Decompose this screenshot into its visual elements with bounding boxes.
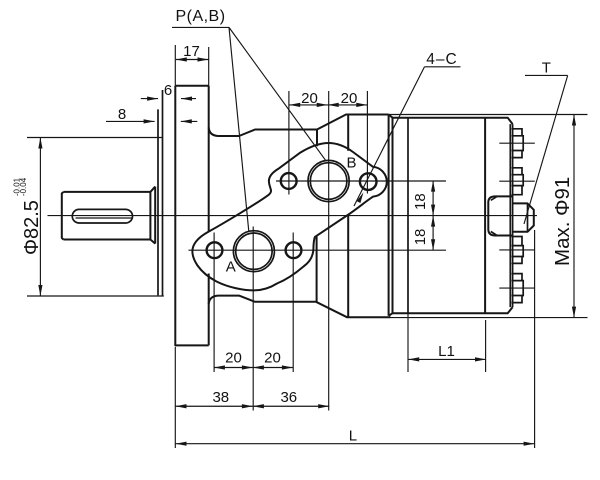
bolt B1 centerline: [499, 142, 535, 144]
dimension 17: [176, 59, 209, 61]
dimension Phi 82.5: [39, 138, 41, 297]
bolt B4 centerline: [499, 287, 535, 289]
svg-text:36: 36: [280, 389, 297, 406]
svg-text:P(A,B): P(A,B): [175, 8, 225, 25]
dimension 18 18: [432, 181, 434, 251]
svg-text:6: 6: [164, 82, 172, 99]
bolt hole A left: [207, 242, 223, 258]
svg-text:18: 18: [412, 193, 429, 210]
svg-text:4–C: 4–C: [426, 51, 457, 68]
dimension 20 20 top: [289, 104, 367, 106]
svg-text:17: 17: [183, 43, 200, 60]
port B inner circle: [310, 163, 347, 200]
drain plug dome: [488, 196, 513, 235]
hole A right vertical centerline: [292, 233, 294, 373]
svg-text:B: B: [346, 154, 356, 171]
port pads outline: [192, 143, 386, 290]
dimension 20 20 bottom: [214, 367, 293, 369]
valve section joint line + L1 extension: [407, 119, 409, 314]
hole A left vertical centerline: [213, 233, 215, 373]
port A inner circle: [236, 233, 272, 269]
flange front face + extension line: [174, 45, 176, 448]
svg-text:L1: L1: [438, 343, 455, 360]
dimension L: [176, 230, 535, 448]
body outline bottom: [209, 296, 391, 318]
svg-text:18: 18: [412, 229, 429, 246]
end cover joint: [484, 118, 486, 314]
hole B right vertical centerline: [366, 91, 368, 194]
hole B left vertical centerline: [288, 91, 290, 195]
bolt B2: [512, 168, 524, 195]
svg-text:A: A: [226, 259, 236, 276]
motor axis centerline: [48, 215, 538, 217]
flange back extension (17 dim): [208, 47, 210, 86]
bolt B3 centerline: [499, 249, 535, 251]
dimension 38 36: [176, 405, 330, 407]
bolt B1: [512, 129, 524, 158]
svg-text:T: T: [542, 59, 551, 76]
dimension L1: [408, 320, 486, 372]
port A vertical centerline: [252, 227, 254, 411]
dimension Phi 82.5 extension lines: [27, 138, 164, 297]
svg-text:Φ82.5-0.01-0.04: Φ82.5-0.01-0.04: [13, 177, 44, 255]
boss edge lines: [317, 115, 349, 317]
dimension 6: [141, 98, 196, 100]
housing joint rings: [389, 115, 393, 316]
bolt B2 centerline: [499, 180, 535, 182]
svg-text:20: 20: [341, 90, 358, 107]
port B vertical centerline: [328, 91, 330, 411]
port B outer circle: [308, 160, 349, 201]
svg-text:20: 20: [301, 90, 318, 107]
body outline top: [209, 115, 389, 137]
drain plug hex: [513, 203, 534, 231]
keyway slot: [72, 209, 132, 223]
svg-text:20: 20: [264, 349, 281, 366]
bolt hole A right: [286, 242, 302, 258]
drain plug hex facet: [527, 203, 529, 231]
dimension Max Phi 91 extension lines: [389, 115, 588, 318]
rear housing top: [393, 118, 513, 124]
bolt B3: [512, 237, 524, 264]
drain plug dome facets: [491, 197, 497, 235]
svg-text:38: 38: [212, 389, 229, 406]
svg-text:Max. Φ91: Max. Φ91: [551, 177, 574, 266]
bolt hole B right: [360, 173, 377, 190]
seal carrier ring: [157, 109, 159, 295]
port A outer circle: [233, 231, 274, 272]
rear housing bottom: [393, 307, 513, 313]
dimension Max Phi 91: [573, 115, 575, 318]
output shaft: [62, 192, 151, 240]
bolt B4: [512, 274, 524, 303]
pilot spigot face: [162, 90, 164, 296]
svg-text:20: 20: [225, 349, 242, 366]
svg-text:L: L: [349, 427, 357, 444]
shaft shoulder: [150, 187, 155, 244]
svg-text:8: 8: [118, 106, 126, 123]
dimension 8: [106, 120, 197, 122]
mounting flange plate: [175, 86, 208, 346]
bolt hole B left: [281, 173, 297, 189]
end cover back faces: [510, 124, 512, 307]
keyway seat line: [76, 217, 133, 219]
port A centerline horizontal: [189, 249, 447, 251]
port B centerline horizontal: [276, 180, 446, 182]
